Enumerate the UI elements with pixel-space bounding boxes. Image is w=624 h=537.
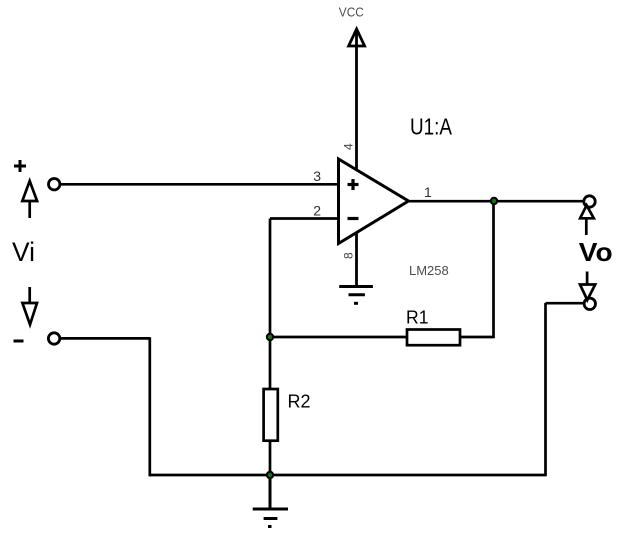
svg-text:Vo: Vo [579,237,613,267]
svg-text:8: 8 [341,252,355,259]
wire inverting vertical [269,219,272,338]
svg-text:1: 1 [424,184,432,200]
wire R2 top lead [269,337,272,389]
wire to Vo lower terminal [546,302,586,305]
ground bottom [253,475,288,527]
input up arrow [22,181,37,218]
wire bottom bus [149,474,546,477]
wire feedback horizontal [270,336,407,339]
op-amp U1 triangle [339,159,409,244]
output down arrow [580,272,595,301]
label minus [14,340,24,343]
power symbol VCC arrow [349,29,365,170]
svg-text:LM258: LM258 [409,263,449,278]
input down arrow [22,287,37,325]
svg-text:Vi: Vi [12,237,35,267]
wire R2 bottom lead [269,441,272,476]
terminal + input [49,179,60,190]
wire lower-left horizontal [60,337,150,340]
junction node ground [266,471,274,479]
svg-text:4: 4 [341,143,355,150]
svg-text:R1: R1 [406,308,429,328]
ground under op-amp [339,287,373,304]
label plus [14,160,26,172]
wire pin3 input [60,183,339,186]
op-amp minus marker [348,217,359,220]
svg-text:VCC: VCC [339,5,364,19]
wire output [409,200,585,203]
resistor R2 [264,389,278,441]
resistor R1 [407,330,460,346]
terminal Vo top [584,196,595,207]
svg-text:2: 2 [313,203,321,219]
junction node output [490,197,498,205]
svg-text:U1:A: U1:A [410,113,453,139]
wire lower-right vertical [544,303,547,476]
wire pin2 input [270,217,339,220]
output up arrow [580,205,594,235]
svg-text:R2: R2 [288,392,311,412]
wire R1 right [460,336,494,339]
wire opamp pin8 stem [355,232,358,287]
terminal Vo bottom [584,298,595,309]
terminal - input [48,333,59,344]
junction node feedback [266,333,274,341]
svg-text:3: 3 [313,168,321,184]
wire lower-left vertical [148,337,151,476]
op-amp plus marker [348,179,359,190]
wire feedback vertical [492,201,495,338]
